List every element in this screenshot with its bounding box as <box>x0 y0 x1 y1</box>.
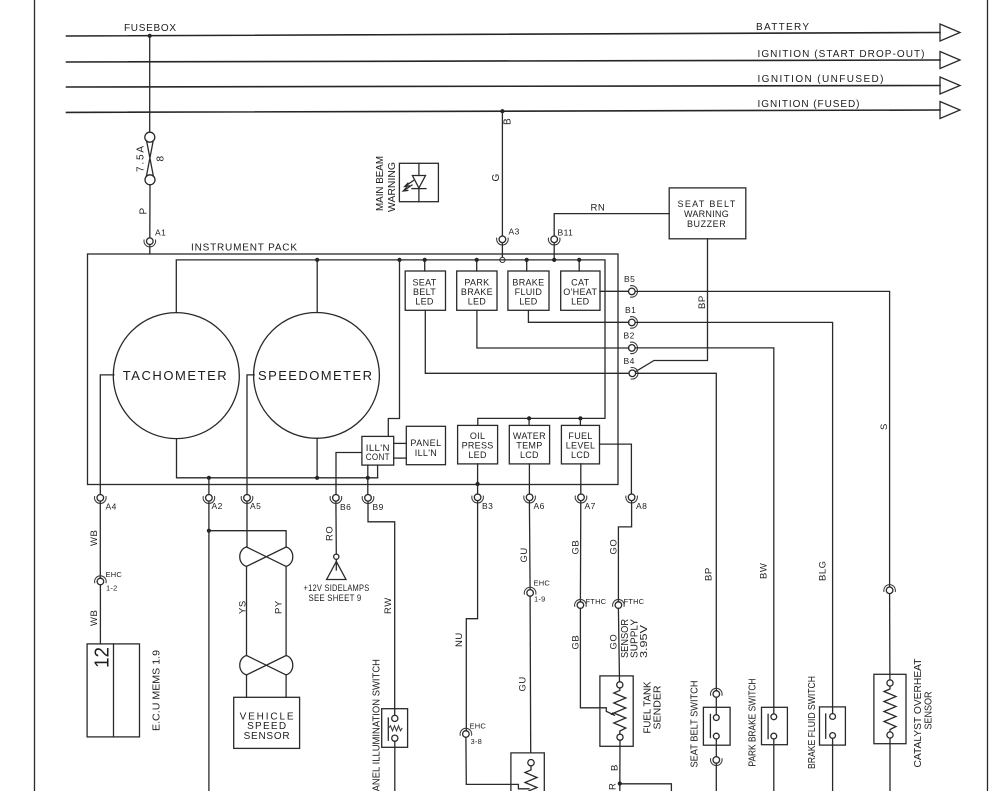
wire WB lower <box>99 585 101 644</box>
wire BP buzzer down <box>636 239 708 371</box>
cat o'heat LED <box>561 271 600 310</box>
links ILL'N CONT to PANEL ILL'N <box>394 442 407 444</box>
svg-text:P: P <box>139 208 150 215</box>
svg-text:INSTRUMENT PACK: INSTRUMENT PACK <box>191 243 297 254</box>
wire speedo left to A5 column <box>247 375 254 485</box>
wire GB <box>579 501 581 602</box>
svg-text:8: 8 <box>156 156 167 162</box>
wire speedo bottom stub <box>316 438 318 478</box>
wire WB <box>99 501 101 578</box>
node A2 branch <box>207 529 211 533</box>
svg-text:A7: A7 <box>585 501 596 511</box>
svg-text:PY: PY <box>274 600 285 614</box>
svg-text:WB: WB <box>89 530 100 546</box>
wire NU <box>466 501 477 731</box>
svg-text:SENDER: SENDER <box>653 686 664 730</box>
svg-text:B3: B3 <box>482 501 493 511</box>
svg-text:1-2: 1-2 <box>106 584 117 593</box>
svg-text:B: B <box>610 764 621 771</box>
svg-text:A8: A8 <box>636 501 647 511</box>
wire WATER TEMP to A6 <box>528 464 530 485</box>
svg-text:TACHOMETER: TACHOMETER <box>123 368 227 383</box>
arrow ignition start drop-out <box>940 52 960 69</box>
connector B2 <box>629 342 638 354</box>
connector A4 <box>99 485 101 495</box>
svg-text:GU: GU <box>519 547 530 562</box>
wire PY to sensor <box>285 675 287 697</box>
bus IGNITION (UNFUSED) <box>67 86 941 88</box>
connector FTHC A8 <box>613 599 625 608</box>
connector B3 <box>477 485 479 495</box>
wire GO lower <box>618 608 619 681</box>
svg-text:PARK BRAKE SWITCH: PARK BRAKE SWITCH <box>748 679 759 767</box>
svg-text:BRAKE FLUID SWITCH: BRAKE FLUID SWITCH <box>807 676 818 769</box>
wire BP from B4 <box>636 373 717 690</box>
connector B9 <box>367 485 369 495</box>
svg-text:WATER: WATER <box>513 431 546 441</box>
OIL PRESS LED box <box>458 425 498 464</box>
wire NU lower <box>466 737 529 789</box>
wire tach left to A4 column <box>100 375 114 485</box>
bus IGNITION (START DROP-OUT) <box>67 60 941 62</box>
svg-text:BW: BW <box>759 563 770 579</box>
wire R branch <box>620 784 672 791</box>
wire RW <box>368 501 395 715</box>
svg-text:RN: RN <box>591 203 606 214</box>
bus BATTERY <box>67 33 941 37</box>
wire tach bottom stub <box>177 439 378 478</box>
svg-text:ILL'N: ILL'N <box>415 448 437 458</box>
wire BW from B2 <box>635 348 774 714</box>
LED symbol <box>403 163 426 201</box>
connector B1 <box>629 317 638 329</box>
fuel tank sender box <box>600 676 633 746</box>
sidelamp connector <box>334 554 339 559</box>
wire G down to A3 <box>501 111 503 236</box>
svg-text:O'HEAT: O'HEAT <box>563 287 597 297</box>
svg-text:E.C.U MEMS 1.9: E.C.U MEMS 1.9 <box>152 650 163 731</box>
svg-text:A4: A4 <box>106 502 117 512</box>
svg-text:3-8: 3-8 <box>471 737 482 746</box>
node illn vertical dot <box>397 258 401 262</box>
svg-text:B: B <box>503 118 514 125</box>
svg-text:YS: YS <box>238 600 249 614</box>
connector B11 <box>548 236 560 245</box>
svg-text:CONT: CONT <box>366 452 390 462</box>
svg-text:B5: B5 <box>624 274 635 284</box>
svg-text:BP: BP <box>697 295 708 309</box>
svg-text:GO: GO <box>609 634 620 650</box>
node ignition fused junction <box>500 109 504 113</box>
connector FTHC A7 <box>575 599 587 608</box>
svg-text:IGNITION (START DROP-OUT): IGNITION (START DROP-OUT) <box>758 49 925 60</box>
internal top bus <box>176 260 605 426</box>
wire PY mid <box>285 566 287 655</box>
svg-text:RO: RO <box>325 526 336 541</box>
twisted pair lower <box>240 656 293 675</box>
svg-text:SEAT BELT: SEAT BELT <box>678 199 736 209</box>
svg-text:B11: B11 <box>558 228 574 238</box>
connector A8 <box>626 494 638 503</box>
node A2 junction <box>207 476 211 480</box>
svg-text:7.5A: 7.5A <box>136 146 147 172</box>
connector B5 <box>629 286 638 298</box>
svg-text:FUEL: FUEL <box>568 431 592 441</box>
catalyst overheat sensor box <box>874 674 906 743</box>
node speedo bottom junction <box>315 476 319 480</box>
connector EHC 1-2 <box>95 576 107 585</box>
WATER TEMP LCD box <box>509 425 549 464</box>
svg-text:GB: GB <box>571 540 582 555</box>
svg-text:B9: B9 <box>373 502 384 512</box>
wire GU lower <box>529 596 532 753</box>
svg-text:R: R <box>608 783 619 790</box>
node fusebox junction <box>148 34 152 38</box>
park brake switch box <box>762 707 788 744</box>
svg-text:SEAT BELT SWITCH: SEAT BELT SWITCH <box>690 681 701 768</box>
svg-text:A6: A6 <box>534 501 545 511</box>
wire YS to sensor <box>246 675 248 697</box>
wire speedo top stub <box>316 260 318 313</box>
svg-text:FLUID: FLUID <box>515 287 543 297</box>
wire A2 stub <box>208 478 210 485</box>
wire S from B5 <box>635 291 889 587</box>
svg-text:B2: B2 <box>624 331 635 341</box>
wire seat belt LED to B4 <box>425 310 629 373</box>
wire OIL PRESS to B3 <box>477 464 479 485</box>
connector A1 <box>144 238 156 247</box>
svg-text:EHC: EHC <box>470 722 487 731</box>
svg-text:PANEL: PANEL <box>410 438 441 448</box>
svg-text:LCD: LCD <box>571 450 590 460</box>
wire fusebox down to fuse <box>149 36 151 132</box>
svg-text:LED: LED <box>571 297 590 307</box>
svg-text:BRAKE: BRAKE <box>512 278 544 288</box>
node B11 bus dot <box>552 258 556 262</box>
svg-text:SPEEDOMETER: SPEEDOMETER <box>258 368 372 383</box>
wire cat o'heat LED to B5 <box>600 290 628 292</box>
ILL'N CONT box <box>362 436 394 465</box>
svg-text:GO: GO <box>609 539 620 555</box>
svg-text:GU: GU <box>518 676 529 691</box>
node fuel level stub dot <box>578 416 582 420</box>
water temp sensor box <box>511 753 544 791</box>
arrow ignition fused <box>940 102 960 119</box>
svg-text:GB: GB <box>571 635 582 650</box>
svg-text:LED: LED <box>415 297 434 307</box>
svg-text:A1: A1 <box>155 228 166 238</box>
svg-text:S: S <box>879 423 890 430</box>
connector A3 <box>497 236 509 245</box>
svg-text:FUSEBOX: FUSEBOX <box>124 23 176 34</box>
node water temp stub dot <box>527 416 531 420</box>
svg-text:CAT: CAT <box>571 278 589 288</box>
svg-text:BLG: BLG <box>818 560 829 581</box>
svg-text:B1: B1 <box>625 305 636 315</box>
wire RO <box>335 501 337 554</box>
connector A7 <box>580 485 582 495</box>
svg-text:CATALYST OVERHEAT: CATALYST OVERHEAT <box>913 659 924 768</box>
svg-text:OIL: OIL <box>470 431 485 441</box>
svg-text:EHC: EHC <box>106 570 123 579</box>
connector B6 <box>335 485 337 495</box>
FUEL LEVEL LCD box <box>561 425 599 464</box>
wire ILLN CONT bottom right stub <box>377 465 379 478</box>
wire A5 down YS <box>246 501 248 547</box>
seat belt LED <box>405 271 445 310</box>
wire brake fluid LED to B1 <box>528 310 629 322</box>
wire A3 into pack <box>501 243 503 258</box>
fuse F 7.5A <box>145 132 155 185</box>
sidelamp triangle <box>327 562 346 580</box>
wire FUEL LEVEL right to A8 <box>600 444 632 494</box>
svg-text:+12V SIDELAMPS: +12V SIDELAMPS <box>304 583 370 593</box>
connector EHC 1-9 <box>524 587 536 596</box>
wire B below sender <box>619 740 621 791</box>
svg-text:A2: A2 <box>212 501 223 511</box>
twisted pair upper <box>240 547 293 566</box>
svg-text:WARNING: WARNING <box>387 162 398 212</box>
svg-text:IGNITION (UNFUSED): IGNITION (UNFUSED) <box>758 74 884 85</box>
svg-text:LCD: LCD <box>520 450 539 460</box>
arrow ignition unfused <box>940 77 960 94</box>
brake fluid switch box <box>820 707 846 745</box>
connector seat belt top <box>711 688 723 697</box>
PANEL ILL'N box <box>406 426 445 464</box>
svg-text:G: G <box>491 174 502 182</box>
svg-text:SEE SHEET 9: SEE SHEET 9 <box>309 593 362 603</box>
svg-text:1-9: 1-9 <box>534 595 545 604</box>
svg-text:IGNITION (FUSED): IGNITION (FUSED) <box>758 99 860 110</box>
connector A6 <box>528 485 530 495</box>
svg-text:BELT: BELT <box>413 287 436 297</box>
svg-text:TEMP: TEMP <box>516 441 542 451</box>
connector B4 <box>629 368 638 380</box>
svg-text:LEVEL: LEVEL <box>566 441 596 451</box>
wire YS mid <box>246 566 248 655</box>
svg-text:WARNING: WARNING <box>684 209 729 219</box>
svg-text:MAIN BEAM: MAIN BEAM <box>375 156 386 211</box>
svg-text:LED: LED <box>519 297 538 307</box>
connector seat belt bottom <box>711 757 723 766</box>
wire ILLN CONT bottom to B9 <box>367 465 369 484</box>
speedometer circle <box>254 313 380 439</box>
wire B11 into pack bus <box>553 243 555 260</box>
wire ILLN CONT left to B6 <box>336 453 362 485</box>
svg-text:LED: LED <box>468 450 487 460</box>
wire to catalyst box <box>889 594 891 680</box>
svg-text:RW: RW <box>383 597 394 614</box>
wire GU <box>528 501 531 590</box>
svg-text:BP: BP <box>704 567 715 581</box>
svg-text:LED: LED <box>468 297 487 307</box>
wire park brake LED to B2 <box>477 310 629 348</box>
wire RN from B11 to buzzer <box>554 214 669 236</box>
svg-text:B6: B6 <box>340 502 351 512</box>
wire A2 down <box>208 501 210 791</box>
connector A2 <box>208 485 210 495</box>
buzzer box <box>669 188 746 239</box>
tachometer circle <box>113 313 239 439</box>
wire illn vertical <box>388 260 399 437</box>
right border <box>987 0 989 791</box>
connector catalyst <box>884 585 896 594</box>
svg-text:A3: A3 <box>509 227 520 237</box>
node speedo stub <box>315 258 319 262</box>
wire GB lower <box>580 608 614 715</box>
connector EHC 3-8 <box>460 728 472 737</box>
left border <box>34 0 36 791</box>
brake fluid LED <box>508 271 549 310</box>
svg-text:FTHC: FTHC <box>624 597 645 606</box>
svg-text:A5: A5 <box>250 501 261 511</box>
svg-text:BRAKE: BRAKE <box>461 287 493 297</box>
svg-text:NU: NU <box>454 632 465 647</box>
main beam warning box <box>399 163 438 201</box>
panel illumination switch box <box>382 709 408 748</box>
svg-text:B4: B4 <box>624 356 635 366</box>
wire BLG from B1 <box>635 322 832 713</box>
vehicle speed sensor box <box>234 697 300 748</box>
svg-text:SENSOR: SENSOR <box>244 731 290 742</box>
svg-text:PANEL ILLUMINATION SWITCH: PANEL ILLUMINATION SWITCH <box>372 659 383 791</box>
svg-text:BUZZER: BUZZER <box>687 219 726 229</box>
wire FUEL LEVEL to A7 <box>580 464 582 485</box>
wire A2 branch to PY <box>209 531 286 547</box>
svg-text:SEAT: SEAT <box>412 278 436 288</box>
svg-text:WB: WB <box>89 610 100 626</box>
wire P fuse to A1 <box>149 185 151 238</box>
svg-text:PARK: PARK <box>464 278 489 288</box>
wire GO from A8 <box>618 501 631 602</box>
node R junction <box>618 781 622 785</box>
ECU box <box>87 644 139 737</box>
arrow battery <box>940 24 960 41</box>
svg-text:PRESS: PRESS <box>462 441 494 451</box>
svg-text:12: 12 <box>92 647 114 668</box>
bus IGNITION (FUSED) <box>67 110 941 112</box>
park brake LED <box>457 271 497 310</box>
wire A1 to pack <box>149 245 151 255</box>
svg-text:3.95V: 3.95V <box>639 625 650 658</box>
node A3 ring on bus <box>500 257 505 262</box>
connector A5 <box>246 485 248 495</box>
svg-text:EHC: EHC <box>534 579 551 588</box>
seat belt switch box <box>703 707 730 745</box>
svg-text:FTHC: FTHC <box>586 597 607 606</box>
svg-text:SENSOR: SENSOR <box>924 692 935 730</box>
